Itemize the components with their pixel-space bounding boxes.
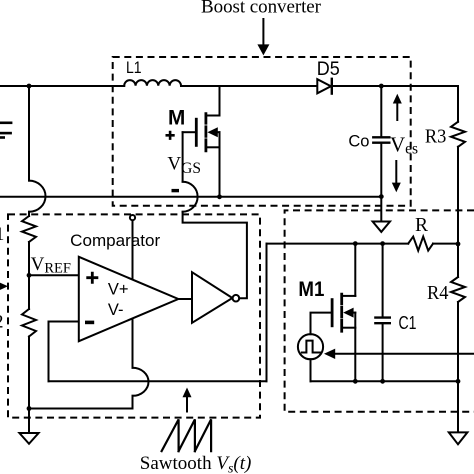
wire comparator out to inverter (178, 298, 192, 300)
arrow boost converter (262, 19, 264, 45)
wire minus input (49, 322, 79, 382)
transistor M body arrow (207, 127, 217, 137)
wire Co drop (380, 86, 382, 137)
node dot R2 bottom (27, 406, 32, 411)
node dot diode out (379, 84, 384, 89)
inverter triangle (192, 272, 232, 323)
svg-text:V-: V- (108, 301, 124, 319)
wire pulse arrow (335, 353, 474, 355)
ground symbol right (449, 432, 468, 444)
svg-text:Sawtooth Vs(t): Sawtooth Vs(t) (140, 453, 252, 474)
battery line long upper (0, 122, 11, 125)
svg-text:R3: R3 (425, 127, 447, 148)
wire R to node (433, 243, 458, 245)
wire comparator column upper (132, 220, 134, 368)
resistor R horizontal (408, 237, 433, 251)
wire comparator column lower (132, 396, 134, 409)
transistor M1 source stub (342, 327, 356, 329)
inverter bubble (233, 295, 240, 302)
wire gate lead M (183, 131, 197, 133)
wire ground return bottom (29, 408, 133, 410)
node dot M1 source rail (353, 379, 358, 384)
transistor M gate bar (195, 119, 198, 145)
wire hop over feedback wire (133, 368, 149, 396)
resistor R4 (451, 277, 465, 302)
node dot rail ground (456, 379, 461, 384)
arrowhead pulse (324, 349, 335, 359)
capacitor Co plates (373, 137, 389, 142)
inductor L1 (124, 80, 181, 86)
wire R2 to ground (28, 337, 30, 434)
capacitor C1 plates (375, 318, 389, 324)
svg-text:Boost converter: Boost converter (201, 0, 322, 18)
svg-text:2: 2 (0, 312, 4, 333)
transistor M body stub (216, 131, 220, 133)
transistor M source drop (219, 132, 221, 197)
svg-text:R: R (415, 215, 428, 236)
wire Co to rail (380, 143, 382, 197)
svg-text:Comparator: Comparator (70, 232, 161, 250)
dashed boost converter box (113, 57, 411, 206)
label VGS plus (166, 131, 175, 140)
wire top rail right segment (332, 85, 458, 87)
transistor M drain riser (219, 86, 221, 116)
svg-text:1: 1 (0, 224, 4, 245)
transistor M1 body arrow (343, 308, 353, 318)
svg-text:L1: L1 (126, 59, 142, 77)
node dot Co bottom (379, 194, 384, 199)
resistor R1 (22, 216, 36, 242)
transistor M1 drain riser (354, 244, 356, 296)
node dot C1 top (380, 241, 385, 246)
wire pulse top to gate (311, 313, 333, 335)
transistor M channel segments (204, 114, 207, 151)
wire feedback riser (266, 244, 268, 382)
wire R1 to R2 (28, 242, 30, 309)
diode D5 cathode bar (331, 79, 333, 94)
ground symbol left (19, 433, 38, 444)
wire top rail mid segment (181, 85, 317, 87)
node dot C1 bottom (380, 379, 385, 384)
wire inverter out to gate loop (183, 212, 247, 299)
arrow left edge (0, 282, 8, 291)
wire R4 to ground (457, 302, 459, 432)
wire feedback bottom (49, 380, 267, 382)
wire bottom rail (0, 196, 381, 198)
battery line long lower (0, 132, 11, 135)
wire VREF to comparator (29, 274, 79, 276)
svg-text:Co: Co (348, 133, 369, 151)
dashed comparator box (8, 214, 260, 417)
node dot VREF (27, 273, 32, 278)
label VGS minus (172, 189, 180, 192)
transistor M source stub (206, 146, 220, 148)
pulse source circle (298, 334, 323, 359)
pulse glyph (302, 341, 321, 353)
wire C1 drop (382, 244, 384, 318)
transistor M1 source drop (354, 313, 356, 382)
label comparator minus (85, 321, 94, 325)
resistor R3 (451, 122, 465, 147)
wire top rail left segment (0, 85, 124, 87)
resistor R2 (22, 309, 36, 337)
svg-text:V+: V+ (108, 281, 129, 299)
battery line short (0, 136, 4, 139)
svg-text:D5: D5 (317, 58, 340, 80)
node dot M source on rail (217, 194, 222, 199)
transistor M1 gate bar (331, 300, 334, 326)
op-amp comparator triangle (79, 257, 179, 341)
wire gate riser (182, 132, 184, 182)
node dot M1 drain (353, 241, 358, 246)
transistor M1 channel segments (340, 294, 343, 331)
wire node to R4 (457, 244, 459, 277)
wire hop to R1 (28, 212, 30, 216)
wire hop over bottom rail at left column (29, 181, 46, 212)
wire left column upper (28, 86, 30, 181)
wire R3 to node (457, 147, 459, 244)
wire Co ground drop (380, 197, 382, 222)
arrow Ves down (395, 161, 397, 184)
wire pulse bottom (310, 359, 312, 381)
sawtooth waveform (162, 419, 212, 451)
svg-text:C1: C1 (399, 313, 417, 333)
label comparator plus (86, 272, 98, 284)
arrow sawtooth (186, 396, 188, 412)
wire M1 bottom rail (311, 380, 459, 382)
transistor M1 drain stub (342, 295, 356, 297)
dashed M1 box (285, 210, 474, 411)
wire R3 drop (457, 86, 459, 122)
wire C1 to rail (382, 323, 384, 381)
transistor M drain stub (206, 115, 220, 117)
node dot divider (456, 242, 461, 247)
terminal circle (130, 215, 135, 220)
svg-text:M: M (168, 106, 185, 129)
arrow Ves up (396, 102, 398, 120)
wire divider node rail (267, 243, 409, 245)
node dot input tap (27, 84, 32, 89)
wire hop gate over bottom rail (183, 182, 198, 212)
svg-text:R4: R4 (427, 283, 449, 304)
transistor M1 body stub (352, 312, 356, 314)
diode D5 (317, 79, 331, 93)
ground symbol Co (373, 222, 390, 232)
svg-text:M1: M1 (298, 277, 324, 301)
